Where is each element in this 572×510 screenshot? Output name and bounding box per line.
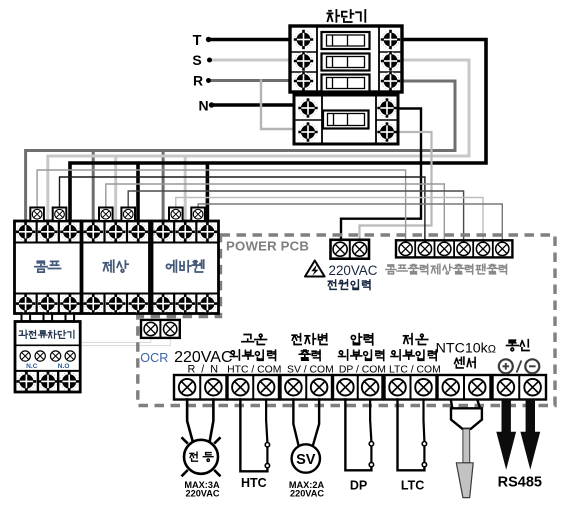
svg-text:SV / COM: SV / COM xyxy=(287,365,334,376)
svg-text:DP: DP xyxy=(350,479,367,493)
svg-text:N.O: N.O xyxy=(58,363,70,370)
svg-text:220VAC: 220VAC xyxy=(185,489,219,499)
svg-text:POWER PCB: POWER PCB xyxy=(226,239,309,254)
svg-text:220VAC: 220VAC xyxy=(329,263,378,278)
svg-text:OCR: OCR xyxy=(140,351,168,365)
svg-text:DP / COM: DP / COM xyxy=(339,365,386,376)
svg-text:R: R xyxy=(193,73,203,89)
svg-text:HTC / COM: HTC / COM xyxy=(227,365,281,376)
svg-text:NTC10kΩ: NTC10kΩ xyxy=(436,341,496,357)
svg-text:SV: SV xyxy=(296,452,316,468)
svg-text:LTC: LTC xyxy=(401,479,424,493)
svg-text:LTC / COM: LTC / COM xyxy=(389,365,441,376)
svg-text:T: T xyxy=(193,33,202,49)
svg-text:220VAC: 220VAC xyxy=(290,489,324,499)
svg-text:R / N: R / N xyxy=(188,364,219,376)
svg-text:N.C: N.C xyxy=(26,363,38,370)
svg-text:S: S xyxy=(192,52,201,68)
svg-text:HTC: HTC xyxy=(241,476,267,490)
svg-text:RS485: RS485 xyxy=(498,475,542,491)
svg-text:N: N xyxy=(198,98,208,114)
